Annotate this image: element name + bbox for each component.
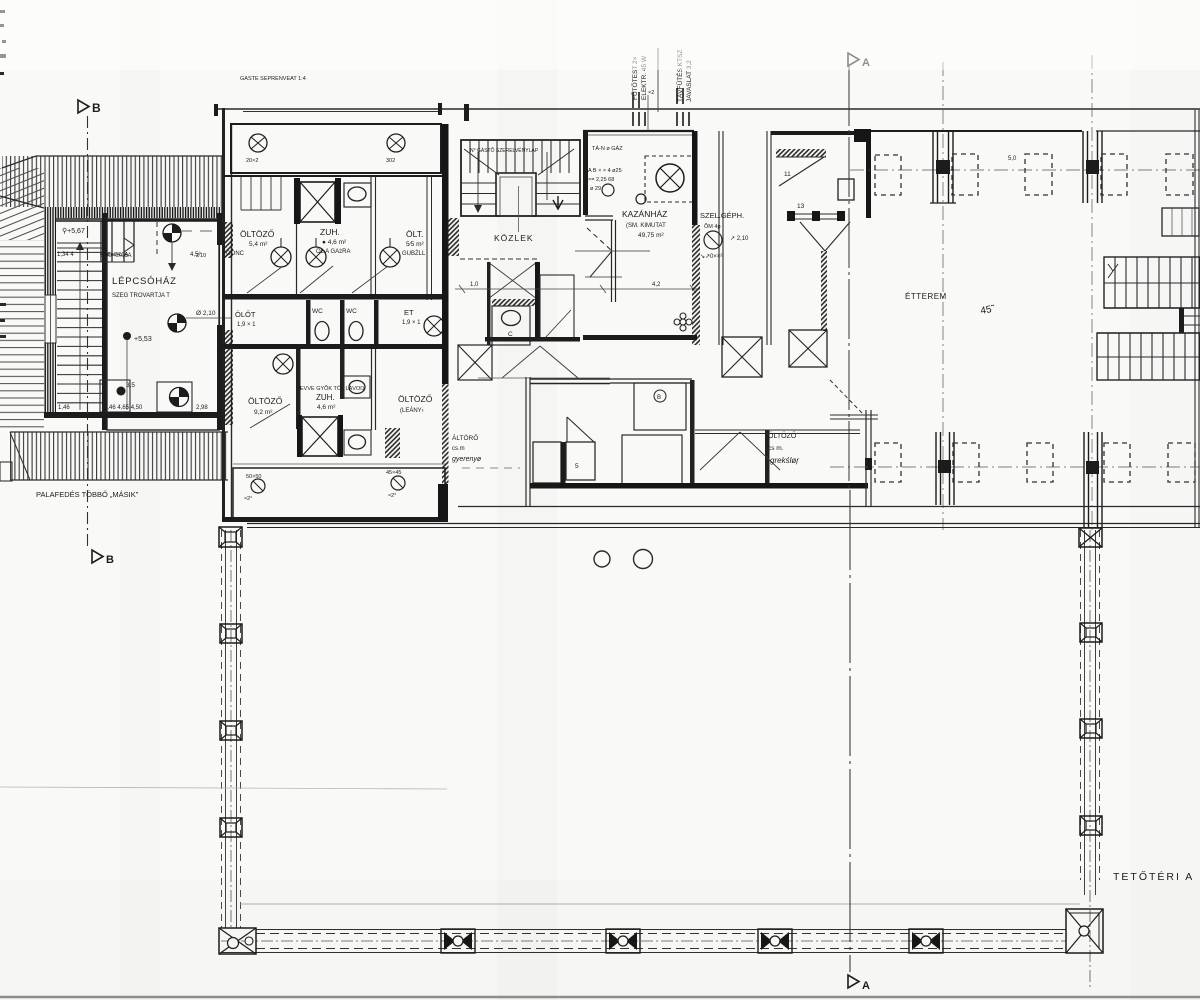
stripe band bottom edge [10, 479, 228, 481]
svg-text:WC: WC [346, 308, 357, 315]
door swing diag row1 a [247, 266, 283, 293]
svg-text:ZUH.: ZUH. [320, 227, 340, 237]
drain symbol left [244, 474, 265, 502]
svg-text:5,0: 5,0 [1008, 156, 1017, 162]
top dashed column 965 [952, 154, 978, 195]
svg-text:WC: WC [312, 308, 323, 315]
svg-text:ø 29: ø 29 [590, 186, 601, 192]
partition oltozo/zuh [296, 224, 298, 295]
KAZANHAZ outline top [583, 130, 694, 132]
svg-text:GUBŻLL: GUBŻLL [402, 250, 426, 257]
thick party wall between blocks [442, 124, 449, 384]
dashed partition [156, 222, 158, 258]
party wall dark bottom [438, 484, 448, 520]
plumb line below level mark [126, 340, 128, 410]
marker A bottom triangle [848, 975, 859, 988]
svg-text:ÖLTÖZŐ: ÖLTÖZŐ [240, 229, 275, 239]
shaft box with X [300, 182, 335, 222]
etterem north wall line right part [1096, 130, 1200, 132]
svg-text:1,46: 1,46 [58, 405, 70, 411]
lobby west wall [487, 262, 491, 345]
shaft2 box X [302, 417, 338, 456]
row4 wc bowl [349, 435, 366, 449]
door X to wc lobby [488, 262, 537, 299]
row2 partitions dark [306, 300, 311, 345]
left roof slope edge line [0, 196, 44, 208]
vestibule shower symbol right [386, 134, 405, 164]
left margin specks [0, 10, 6, 338]
KAZANHAZ west wall step [585, 216, 616, 302]
south dashed column 966 [953, 443, 979, 482]
faint line under braces [478, 377, 610, 379]
south pier x623 [606, 929, 640, 953]
lower facade stripe band [10, 432, 228, 480]
small dashes right [182, 230, 192, 232]
svg-text:B: B [92, 101, 101, 115]
svg-text:1,9 × 1: 1,9 × 1 [237, 322, 256, 328]
row2 wc bowl a [315, 322, 329, 341]
wc box top [344, 183, 371, 207]
building south outer double line [247, 523, 1200, 525]
low room box mid [622, 435, 682, 485]
floor wall under vestibule [222, 175, 448, 177]
partition olt east [427, 176, 432, 300]
row4 wc box [344, 430, 371, 455]
svg-text:≈2°: ≈2° [388, 493, 396, 499]
flower symbol [674, 313, 692, 331]
vent small box [838, 179, 854, 200]
core centre line [518, 186, 520, 232]
south colonnade axis [830, 466, 1200, 468]
stair top landing partition [57, 247, 102, 249]
building south outer line2 [247, 527, 1200, 529]
bottom wall dark [44, 412, 222, 418]
stair landing [1097, 308, 1200, 333]
row3 partition c [371, 349, 373, 430]
row2 wc bowl b [349, 322, 363, 341]
svg-text:20×2: 20×2 [246, 158, 258, 164]
left roof slope hatch [0, 168, 44, 240]
svg-text:ÁLTÖRŐ: ÁLTÖRŐ [452, 433, 478, 442]
row2 bottom wall dark [222, 344, 448, 349]
svg-text:(SM. KIMUTAT: (SM. KIMUTAT [626, 223, 666, 229]
top wall of low rooms [695, 430, 860, 434]
west terrace step rect [0, 462, 12, 481]
row3 partition b [340, 349, 345, 399]
second room outline [540, 275, 574, 340]
west pier 2 [220, 624, 242, 643]
roof eave dense strip [55, 207, 222, 218]
svg-text:1,34 4: 1,34 4 [57, 252, 74, 258]
boiler dashed box [645, 156, 695, 202]
small circle pair a [594, 551, 610, 567]
section line A lower [849, 490, 851, 972]
grid axis horizontal top colonnade [850, 169, 1200, 171]
svg-text:TÁ-N ø GÁZ: TÁ-N ø GÁZ [592, 145, 623, 152]
svg-text:cs m.: cs m. [768, 445, 784, 452]
dim tick small [438, 103, 442, 115]
west gable wall (dark) upper [44, 207, 56, 295]
partition east low rooms [765, 430, 770, 485]
shaft2 dark left [297, 415, 302, 457]
stair walk line arrow [76, 242, 84, 250]
svg-text:GÖNC: GÖNC [226, 250, 245, 257]
west gable wall (dark) lower [44, 343, 56, 413]
south dashed column 888 [875, 443, 901, 482]
closet shelf line [101, 261, 134, 263]
east pier 4 [1080, 816, 1102, 835]
svg-text:≈2°: ≈2° [244, 496, 252, 502]
lower rooms: X box a [722, 337, 762, 377]
east pier 2 [1080, 623, 1102, 642]
KAZANHAZ top inner [583, 134, 694, 136]
stair down arrow [553, 196, 563, 209]
svg-text:4,6 m²: 4,6 m² [317, 404, 336, 411]
svg-text:×= 2,25 68: ×= 2,25 68 [588, 177, 614, 183]
partition x 690 [690, 380, 695, 485]
etterem north wall line [854, 130, 1082, 132]
svg-text:↘↗0××²: ↘↗0××² [700, 254, 722, 260]
svg-text:13: 13 [797, 203, 805, 210]
window right wall [1162, 208, 1199, 236]
svg-text:45×45: 45×45 [386, 470, 401, 476]
svg-text:×2: ×2 [648, 90, 654, 96]
svg-text:GASTE SEPRENVEAT 1:4: GASTE SEPRENVEAT 1:4 [240, 76, 306, 82]
svg-text:ÖLTÖZŐ: ÖLTÖZŐ [398, 394, 433, 404]
east facade wall lines [1195, 110, 1199, 528]
door swings mid2 [540, 346, 578, 378]
eave strip bottom edge [55, 218, 222, 220]
south pier 943 [936, 432, 954, 505]
column symbol top (circle with quadrants) [163, 224, 181, 242]
faint dashed line left room [462, 467, 520, 469]
svg-text:302: 302 [386, 158, 395, 164]
svg-text:EVVE GYÕK TŐL LÁVOŊ: EVVE GYÕK TŐL LÁVOŊ [300, 385, 364, 392]
row3 wc bowl [349, 381, 365, 394]
east wall thin middle [219, 245, 221, 325]
small room box b [566, 442, 595, 480]
top dim line [243, 111, 440, 113]
kazan bottom wall [583, 335, 697, 340]
vent top wall [771, 131, 868, 135]
window mullions [1172, 208, 1192, 236]
bottom closet box right [157, 382, 192, 412]
vent ledge hatch [776, 149, 826, 157]
svg-text:2,98: 2,98 [196, 405, 208, 411]
kazan east wall black [692, 131, 698, 225]
top border tick start [214, 104, 218, 116]
vertical scribble text col1 [630, 55, 648, 100]
kozlek stair inner core [496, 173, 536, 216]
partition zuh/olt [371, 176, 376, 295]
stairwell room outline [107, 220, 219, 430]
svg-text:ZUH.: ZUH. [316, 393, 335, 402]
grid axis vertical 943 [942, 62, 944, 530]
level mark dot [123, 332, 131, 340]
svg-text:B: B [657, 395, 661, 401]
small room divider dark [561, 442, 566, 483]
shower circle row1 b [306, 238, 326, 267]
south pier x458 [441, 929, 475, 953]
west pier 4 [220, 818, 242, 837]
wall below kazan rooms [610, 379, 692, 383]
page bottom edge shadow [0, 996, 1200, 999]
hatched wall piece left of kozlek [447, 218, 459, 256]
svg-text:49,75 m²: 49,75 m² [638, 232, 664, 239]
locker row [241, 177, 281, 210]
svg-text:ÖLTÖZŐ: ÖLTÖZŐ [248, 396, 283, 406]
stair core inner line [500, 177, 532, 216]
top dashed column 888 [875, 155, 901, 195]
section line B [87, 116, 89, 549]
double line east low rooms [830, 415, 878, 419]
svg-text:KAZÁNHÁZ: KAZÁNHÁZ [622, 209, 667, 219]
west wall hatch piece upper [223, 222, 233, 258]
section line A upper [848, 66, 850, 490]
svg-text:ÉTTEREM: ÉTTEREM [905, 292, 947, 301]
wc room bowl [502, 311, 521, 326]
west wall hatch piece lower [223, 330, 233, 425]
east wall dark bottom [217, 325, 223, 430]
vent duct lines [787, 214, 841, 219]
svg-text:A B × × 4 ø25: A B × × 4 ø25 [588, 168, 622, 174]
terrace east colonnade lines [1081, 530, 1100, 990]
bottom room top faint line [233, 463, 445, 465]
vestibule shower symbol left [246, 134, 267, 164]
top pier 943 [930, 131, 956, 203]
row2 wash circle [424, 316, 444, 336]
B circle [654, 390, 666, 402]
row3 wc box [344, 376, 370, 398]
tick group b above line [633, 88, 683, 108]
terrace faint crease line [0, 787, 447, 789]
west wall inner line [231, 124, 233, 520]
top dashed column 1179 [1166, 154, 1193, 195]
dim line to wall from middle column [186, 317, 232, 319]
closet dot [117, 387, 126, 396]
shower circle row1 a [271, 238, 291, 267]
small room box a [533, 442, 561, 483]
svg-text:5,4 m²: 5,4 m² [249, 241, 268, 248]
door swing diag row1 b [300, 266, 333, 293]
vestibule band outline [231, 124, 441, 173]
south-east corner pier [1066, 909, 1103, 953]
svg-text:ÖLTÖZŐ: ÖLTÖZŐ [768, 431, 797, 440]
drain symbol right [386, 470, 405, 499]
stair east wall (dark) [102, 213, 108, 430]
plumb from column [171, 243, 173, 270]
row3 partition a [296, 349, 301, 429]
lower rooms: X box b [789, 330, 827, 367]
shaft walls dark left [294, 178, 300, 224]
corner block stub [866, 130, 871, 218]
bottom closet box left [100, 380, 130, 412]
svg-text:ÖLŐT: ÖLŐT [235, 310, 256, 319]
corridor wall vertical x527 [526, 377, 530, 507]
column symbol bottom [170, 388, 189, 407]
mid corridor wall dark [222, 294, 448, 300]
stripe band top edge [10, 431, 228, 433]
svg-text:ÕM 4p: ÕM 4p [704, 223, 721, 230]
column symbol middle [168, 314, 186, 332]
wc bowl top [348, 187, 366, 201]
grid axis vertical 1092 [1091, 55, 1093, 530]
marker A top triangle [848, 53, 859, 66]
wall stub east [866, 410, 871, 506]
boiler circle [656, 164, 684, 192]
vertical scribble text col2 [675, 50, 693, 102]
vent diag brace [779, 157, 824, 186]
hatched pier row4 [385, 428, 400, 458]
south dashed column 1040 [1027, 443, 1053, 482]
right stair upper flight [1104, 257, 1200, 308]
east wall of stair room (dark top) [217, 213, 223, 245]
south dashed column 1181 [1168, 443, 1195, 482]
svg-text:4,5°: 4,5° [190, 252, 201, 258]
svg-text:SZEL.GÉPH.: SZEL.GÉPH. [700, 211, 744, 220]
closet diagonal [124, 238, 134, 252]
east pier 3 [1080, 719, 1102, 738]
svg-text:● 4,6 m²: ● 4,6 m² [322, 239, 347, 246]
KAZANHAZ west wall [583, 131, 588, 215]
left roof plane horizontal shingle hatch [0, 240, 44, 430]
stair diagonal cut 2 [538, 149, 574, 175]
svg-text:gyerenyø: gyerenyø [452, 456, 482, 463]
south dashed column 1117 [1104, 443, 1130, 482]
south pier x926 [909, 929, 943, 953]
roof band top edge [2, 156, 222, 168]
stair walk line left [477, 152, 479, 212]
room with B circle [634, 383, 686, 430]
stair walk line [79, 244, 81, 410]
svg-text:1,0: 1,0 [470, 282, 479, 288]
shower circle row1 c [380, 238, 400, 267]
vertical dim line at 648 [647, 95, 649, 131]
west wall window mullion [50, 295, 52, 343]
south wall of mid block dark [530, 483, 868, 489]
low rooms door diagonals [700, 432, 740, 470]
vent hatch column [821, 251, 827, 331]
kazan door swing V [575, 228, 650, 277]
door swing row3 [250, 404, 290, 428]
svg-text:grekśløŗ: grekśløŗ [770, 456, 799, 465]
dim line mid level [455, 285, 700, 293]
top border long line [215, 108, 1200, 110]
bottom room outline [233, 468, 445, 518]
small pump circle2 [636, 194, 646, 204]
marker B top triangle [78, 100, 89, 113]
vent ledge line [776, 156, 826, 158]
wc room hatch top [492, 299, 535, 306]
dashed door diag [830, 380, 862, 413]
svg-text:ET: ET [404, 308, 414, 317]
roof hatch band over left wing [2, 156, 222, 207]
door triangle [567, 417, 594, 442]
dim tick blob [464, 104, 469, 121]
west wall window [45, 295, 56, 343]
top dashed column 1114 [1101, 154, 1127, 195]
svg-text:ÖLT.: ÖLT. [406, 229, 423, 239]
svg-text:9,2 m²: 9,2 m² [254, 409, 273, 416]
row3 partition d [375, 349, 377, 430]
terrace faint south line [240, 903, 1080, 905]
second room door diag [545, 310, 571, 338]
south pier 1092 [1084, 432, 1102, 528]
corridor top wall [530, 379, 610, 384]
svg-text:50×50: 50×50 [246, 474, 261, 480]
vent V brace [800, 222, 850, 251]
top pier 1092 [1083, 131, 1102, 203]
svg-text:(LEÁNY›: (LEÁNY› [400, 407, 424, 414]
svg-text:↗ 2,10: ↗ 2,10 [730, 236, 749, 242]
svg-text:Ø 2,10: Ø 2,10 [196, 310, 216, 317]
szel east wall [767, 131, 771, 345]
svg-text:cs.m: cs.m [452, 446, 465, 452]
wc room outline [492, 306, 530, 345]
terrace south band lines [221, 930, 1066, 953]
east colonnade top pier [1079, 528, 1102, 547]
tick group a [633, 112, 689, 126]
stair walk line right [546, 152, 548, 200]
stripe band left slope [10, 432, 30, 480]
south-west corner pier [219, 928, 256, 954]
right stair lower flight [1097, 333, 1200, 380]
kozlek stair outline [461, 140, 580, 216]
shaft2 dark right [338, 415, 343, 457]
staircase treads [57, 243, 102, 403]
kazan east wall hatched [692, 225, 700, 345]
door swings mid [502, 346, 540, 378]
stair treads left run [461, 183, 496, 204]
duct end blocks [787, 211, 795, 221]
top dashed column 1039 [1025, 154, 1052, 195]
svg-text:11: 11 [784, 171, 791, 178]
szel geph partition [719, 131, 723, 345]
stair diagonal cut [464, 149, 499, 175]
dashed partition under kozlek [460, 258, 540, 260]
top closet partitions [101, 221, 134, 262]
block bottom wall dark [222, 517, 448, 522]
szel circle [704, 231, 722, 249]
west wall of block [222, 108, 225, 520]
X brace box [458, 345, 492, 380]
stair treads right run [536, 183, 580, 204]
shaft walls dark right [335, 178, 341, 224]
wall stub blob [865, 458, 872, 470]
svg-text:B: B [106, 554, 114, 566]
row3 shower circle [273, 354, 293, 374]
svg-text:1,9 × 1: 1,9 × 1 [402, 320, 421, 326]
svg-text:5⁄5 m²: 5⁄5 m² [406, 241, 425, 248]
small pump circle [602, 184, 614, 196]
building south inner line [458, 506, 1200, 508]
party wall hatched lower [442, 384, 449, 484]
wall between wc rooms [535, 262, 540, 341]
svg-text:4,2: 4,2 [652, 282, 661, 288]
marker B bottom triangle [92, 550, 103, 563]
west colonnade corner pier [219, 527, 242, 547]
top wall under eave [56, 220, 218, 222]
west pier 3 [220, 721, 242, 740]
vertical line col2 [657, 48, 659, 112]
south pier x775 [758, 929, 792, 953]
svg-text:5: 5 [575, 463, 579, 470]
stair treads top run [470, 140, 569, 173]
thick wall under wc rooms [485, 337, 580, 342]
svg-text:⚲+5,67: ⚲+5,67 [62, 227, 85, 235]
door swing diag row1 c [352, 266, 388, 293]
terrace west colonnade lines [222, 530, 241, 928]
